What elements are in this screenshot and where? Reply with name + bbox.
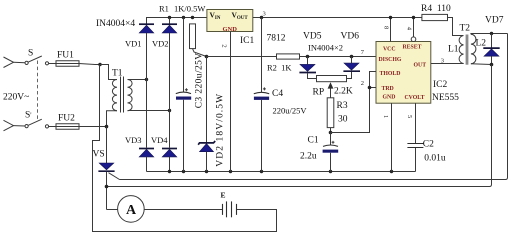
switch S — [25, 61, 28, 64]
wire — [14, 61, 26, 64]
svg-text:3: 3 — [441, 58, 444, 65]
svg-text:220V~: 220V~ — [3, 93, 29, 103]
svg-text:220u/25V: 220u/25V — [273, 106, 308, 116]
wire R2 right to IC2 DISCHG — [300, 56, 377, 58]
svg-text:L1: L1 — [448, 45, 459, 55]
resistor R2 — [277, 54, 300, 59]
wire — [79, 126, 107, 128]
node junction C1/ground — [329, 170, 332, 173]
svg-text:GND: GND — [223, 26, 238, 33]
resistor R1 — [190, 24, 196, 49]
wire C1 top lead — [330, 133, 332, 146]
fuse FU1 — [56, 61, 79, 67]
wire IC1 GND lead — [230, 32, 232, 172]
node junction VD6 top — [350, 55, 354, 59]
svg-text:R4 110: R4 110 — [421, 4, 451, 14]
node junction C3/ground — [182, 170, 185, 173]
svg-text:R1: R1 — [159, 4, 169, 14]
capacitor C1 — [323, 141, 339, 153]
battery E — [223, 201, 237, 217]
zener diode VD2 18V — [198, 141, 215, 152]
wire ammeter right to battery — [144, 209, 222, 211]
wire dashed gang link — [37, 61, 39, 120]
node junction C4/ground — [260, 170, 263, 173]
wire VD4 bottom to ground rail — [169, 157, 171, 172]
svg-text:0.01u: 0.01u — [424, 154, 446, 164]
svg-text:THOLD: THOLD — [380, 71, 401, 77]
node junction VCC/rail — [389, 16, 392, 19]
wire IC2 CVOLT pin 5 — [415, 103, 417, 143]
wire C4 bottom lead — [261, 100, 263, 172]
ammeter A — [118, 196, 145, 223]
op-amp IC1 7812 regulator — [207, 10, 253, 34]
wire junction to IC2 TRD/THOLD — [331, 88, 370, 133]
wire R4 right to T2 L1 top — [448, 18, 464, 36]
wire IC2 RESET pin 4 with bubble — [411, 18, 416, 42]
svg-text:2.2u: 2.2u — [300, 152, 317, 162]
wire — [14, 125, 26, 127]
wire top rail (bridge + output) — [147, 18, 207, 25]
wire bridge right column — [169, 33, 171, 148]
node junction RESET/rail — [412, 16, 415, 19]
resistor R4 — [422, 14, 448, 20]
node 220V input terminal upper fork — [4, 57, 14, 68]
svg-text:3: 3 — [263, 11, 266, 18]
wire VOUT drop to R2 net and C4 — [261, 18, 263, 93]
svg-text:8: 8 — [382, 26, 389, 29]
svg-text:VD5: VD5 — [303, 32, 322, 42]
wire VS anode lead — [106, 127, 108, 164]
transformer T2 winding L1 — [459, 36, 463, 64]
capacitor C3 — [176, 88, 191, 99]
wire zener bottom lead — [206, 152, 208, 172]
diode VD2 — [162, 24, 177, 33]
svg-text:GND: GND — [383, 95, 396, 101]
node junction R1 top — [191, 16, 194, 19]
diode VD4 — [162, 149, 177, 157]
svg-text:30: 30 — [338, 115, 348, 125]
wire VD7 bottom lead — [491, 56, 493, 64]
svg-text:VD2: VD2 — [152, 39, 169, 49]
svg-text:2.2K: 2.2K — [334, 87, 353, 97]
wire R1 bottom diagonal lead — [193, 49, 207, 57]
switch S' — [25, 125, 28, 128]
svg-text:DISCHG: DISCHG — [379, 57, 402, 63]
svg-text:1: 1 — [382, 115, 389, 118]
svg-text:VD6: VD6 — [341, 32, 360, 42]
wire zener top lead — [206, 57, 208, 143]
wire — [79, 64, 109, 65]
wire — [49, 126, 56, 128]
diode VD7 — [483, 48, 499, 56]
svg-text:E: E — [221, 191, 226, 200]
transformer T1 primary winding — [112, 80, 117, 111]
wire VD3 bottom to ground rail — [146, 157, 148, 172]
diode VD5 — [299, 57, 316, 73]
node junction VS/charge rail — [105, 185, 109, 189]
wire VD5 bottom to RP left — [308, 73, 317, 78]
svg-text:5: 5 — [406, 115, 413, 118]
wire T1 secondary bottom lead — [128, 110, 170, 112]
svg-text:VD2 18V/0.5W: VD2 18V/0.5W — [215, 93, 225, 167]
svg-text:IN4004×4: IN4004×4 — [96, 19, 135, 29]
node junction VOUT column — [260, 16, 263, 19]
svg-text:NE555: NE555 — [432, 93, 459, 103]
capacitor C4 — [254, 87, 269, 100]
node 220V input terminal lower fork — [4, 120, 14, 131]
svg-text:IC2: IC2 — [433, 80, 448, 90]
svg-text:C4: C4 — [272, 89, 283, 99]
svg-text:VCC: VCC — [383, 47, 396, 53]
svg-text:C3 220u/25V: C3 220u/25V — [194, 52, 204, 108]
op-amp IC2 NE555 timer — [376, 42, 431, 104]
wire C3 top lead — [183, 18, 185, 93]
node junction secondary-bottom / bridge right column — [168, 109, 171, 112]
wire C2 bottom lead to ground rail — [415, 148, 417, 172]
wire R2 net horizontal — [207, 56, 277, 58]
wire L2 bottom lead — [471, 63, 492, 66]
node junction R1/zener/VOUT net — [205, 55, 209, 59]
wire VD6 bottom to RP right — [347, 72, 352, 79]
wire C3 bottom lead — [183, 100, 185, 172]
svg-text:C1: C1 — [308, 136, 319, 146]
capacitor C2 — [407, 144, 423, 148]
svg-text:7812: 7812 — [267, 34, 286, 44]
node junction R3/C1/pin2-6 — [329, 131, 333, 135]
wire IC2 THOLD pin 6 stub — [370, 72, 377, 88]
svg-text:R3: R3 — [337, 101, 348, 111]
wire ammeter left lead — [107, 209, 118, 211]
node junction VD2 top — [168, 16, 171, 19]
node junction VD5 top — [306, 55, 310, 59]
node junction C3 tap — [182, 16, 185, 19]
wire C1 bottom lead — [330, 153, 332, 172]
svg-text:RP: RP — [313, 88, 325, 98]
node junction T1-bottom/FU2/VS — [105, 125, 109, 129]
wire IC2 TRD pin 2 stub — [370, 87, 377, 89]
node junction TRD/THOLD — [368, 86, 372, 90]
svg-text:C2: C2 — [423, 140, 434, 150]
svg-text:S: S — [28, 49, 33, 59]
wire ground rail — [147, 171, 416, 173]
fuse FU2 — [56, 124, 79, 130]
wire R3 bottom lead — [330, 128, 332, 133]
svg-text:2: 2 — [361, 80, 364, 87]
svg-text:VS: VS — [93, 150, 105, 160]
svg-text:T2: T2 — [460, 24, 471, 34]
wire VD2 top lead — [169, 18, 171, 24]
svg-text:IC1: IC1 — [240, 36, 255, 46]
wire battery loop left/bottom/right — [93, 65, 277, 232]
svg-text:VD3: VD3 — [125, 135, 142, 145]
wire bridge left column — [146, 33, 148, 148]
node junction IC1 GND/ground — [229, 170, 232, 173]
svg-text:2: 2 — [221, 44, 228, 47]
wire T1 primary top lead — [100, 65, 117, 80]
transformer T2 core — [466, 35, 469, 65]
wiper arrow RP — [328, 82, 334, 98]
transformer T2 winding L2 — [471, 34, 476, 63]
node junction VD7/L2 bottom — [490, 63, 494, 67]
node junction zener/ground — [205, 170, 208, 173]
wire IC2 GND pin 1 — [391, 103, 393, 171]
node junction IC2 GND/ground — [390, 170, 393, 173]
potentiometer RP — [317, 76, 347, 82]
wire IC1 output rail — [253, 17, 422, 19]
svg-text:TRD: TRD — [382, 86, 394, 92]
resistor R3 — [327, 98, 334, 128]
wire T1 primary bottom lead — [107, 111, 118, 127]
wire VS cathode lead down — [106, 172, 108, 210]
svg-text:OUT: OUT — [414, 63, 427, 69]
svg-text:FU1: FU1 — [57, 51, 74, 61]
wire right column from L2 top down to gate rail — [120, 34, 508, 180]
svg-text:RESET: RESET — [403, 45, 422, 51]
svg-text:VD1: VD1 — [125, 39, 142, 49]
node junction VD7 top — [490, 32, 493, 35]
wire VD7 top lead — [491, 34, 493, 48]
svg-text:VD4: VD4 — [151, 135, 168, 145]
node junction VD4/ground — [168, 170, 171, 173]
svg-text:L2: L2 — [476, 39, 487, 49]
svg-text:T1: T1 — [112, 69, 123, 79]
wire IC2 OUT pin 3 — [431, 63, 464, 65]
diode VD3 — [139, 149, 154, 157]
transformer T1 core — [120, 77, 122, 113]
diode VD6 — [343, 57, 360, 72]
transformer T1 secondary winding — [128, 80, 133, 111]
wire VD7 anode column down to charge rail — [107, 65, 492, 187]
wire L2 top to right column — [471, 33, 508, 36]
svg-text:1K/0.5W: 1K/0.5W — [174, 4, 205, 14]
svg-text:IN4004×2: IN4004×2 — [308, 43, 343, 53]
node junction secondary-top / bridge left column — [145, 78, 148, 81]
svg-text:R2 1K: R2 1K — [267, 63, 292, 73]
svg-text:VD7: VD7 — [485, 16, 504, 26]
wire IC2 VCC pin 8 — [390, 18, 392, 42]
thyristor VS — [98, 163, 114, 171]
svg-text:A: A — [126, 203, 137, 218]
wire T1 secondary top lead — [128, 79, 147, 81]
svg-text:S': S' — [25, 111, 32, 121]
diode VD1 — [139, 24, 154, 33]
wire — [49, 63, 56, 65]
svg-text:FU2: FU2 — [58, 114, 75, 124]
wire VS gate diagonal — [109, 173, 120, 180]
node junction FU1/loop — [98, 63, 101, 66]
svg-text:CVOLT: CVOLT — [405, 95, 425, 101]
